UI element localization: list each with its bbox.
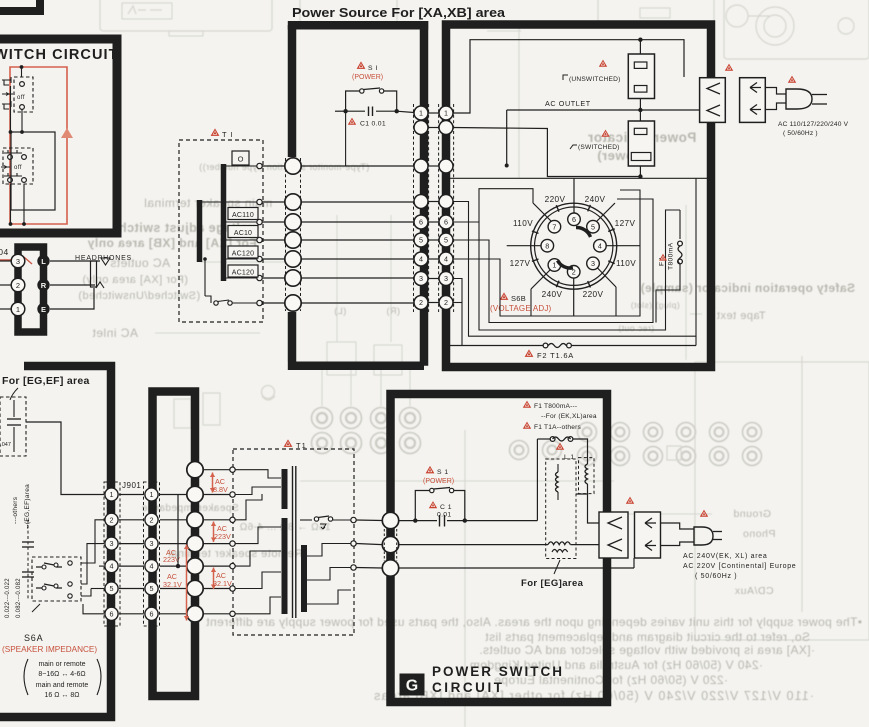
svg-text:240V: 240V bbox=[585, 195, 606, 204]
svg-text:S6B: S6B bbox=[511, 294, 526, 303]
svg-text:(VOLTAGE ADJ): (VOLTAGE ADJ) bbox=[490, 304, 552, 313]
svg-text:(POWER): (POWER) bbox=[352, 74, 383, 81]
svg-text:For [EG,EF] area: For [EG,EF] area bbox=[2, 375, 90, 387]
svg-text:6: 6 bbox=[110, 609, 114, 618]
svg-text:4: 4 bbox=[598, 241, 602, 250]
svg-text:(R): (R) bbox=[386, 306, 400, 316]
svg-text:8.8V: 8.8V bbox=[213, 485, 228, 494]
svg-text:WITCH CIRCUIT: WITCH CIRCUIT bbox=[0, 47, 119, 63]
svg-text:Ground: Ground bbox=[733, 508, 771, 520]
svg-text:2: 2 bbox=[444, 298, 448, 307]
svg-text:F1 T800mA---: F1 T800mA--- bbox=[534, 403, 577, 410]
svg-text:•The power supply for this uni: •The power supply for this unit varies d… bbox=[206, 615, 862, 629]
svg-text:220V: 220V bbox=[583, 290, 604, 299]
svg-text:S6A: S6A bbox=[24, 633, 43, 643]
svg-text:223V: 223V bbox=[214, 532, 231, 541]
svg-text:0.022---0.022: 0.022---0.022 bbox=[5, 578, 11, 618]
svg-text:1: 1 bbox=[16, 305, 20, 314]
svg-text:F2 T1.6A: F2 T1.6A bbox=[537, 351, 574, 360]
svg-text:(rec out): (rec out) bbox=[618, 323, 654, 333]
svg-text:T800mA: T800mA bbox=[668, 242, 675, 270]
svg-text:3: 3 bbox=[444, 274, 448, 283]
svg-text:AC110: AC110 bbox=[232, 212, 254, 219]
svg-text:·[XA] area is provided with vo: ·[XA] area is provided with voltage sele… bbox=[479, 643, 815, 657]
svg-text:L: L bbox=[41, 257, 46, 266]
svg-text:O: O bbox=[238, 155, 244, 164]
svg-text:S I: S I bbox=[368, 65, 378, 72]
svg-text:(plug) (slot): (plug) (slot) bbox=[630, 300, 679, 310]
svg-text:Phono: Phono bbox=[743, 528, 776, 540]
svg-text:8~16Ω ↔ 4-6Ω: 8~16Ω ↔ 4-6Ω bbox=[38, 671, 85, 678]
svg-text:3: 3 bbox=[591, 259, 595, 268]
svg-text:(UNSWITCHED): (UNSWITCHED) bbox=[569, 76, 620, 83]
svg-text:3: 3 bbox=[16, 257, 20, 266]
svg-text:8: 8 bbox=[545, 241, 549, 250]
svg-text:(POWER): (POWER) bbox=[423, 478, 454, 485]
svg-text:main and remote: main and remote bbox=[36, 682, 89, 689]
svg-text:( 50/60Hz ): ( 50/60Hz ) bbox=[695, 573, 737, 580]
svg-text:J901: J901 bbox=[122, 481, 141, 490]
svg-text:T I: T I bbox=[222, 130, 234, 139]
svg-text:4: 4 bbox=[110, 562, 114, 571]
svg-text:127V: 127V bbox=[615, 219, 636, 228]
svg-text:4: 4 bbox=[419, 255, 423, 264]
svg-text:E: E bbox=[41, 305, 46, 314]
svg-text:AC OUTLET: AC OUTLET bbox=[545, 99, 591, 108]
svg-text:5: 5 bbox=[444, 236, 448, 245]
svg-text:5: 5 bbox=[419, 236, 423, 245]
svg-text:4: 4 bbox=[444, 255, 448, 264]
svg-text:C 1: C 1 bbox=[440, 504, 452, 511]
svg-text:L 1: L 1 bbox=[564, 454, 575, 461]
svg-text:6: 6 bbox=[150, 609, 154, 618]
svg-text:For [EG]area: For [EG]area bbox=[521, 578, 584, 589]
svg-text:3: 3 bbox=[110, 539, 114, 548]
svg-text:C1 0.01: C1 0.01 bbox=[360, 121, 386, 128]
svg-text:0.082---0.082: 0.082---0.082 bbox=[16, 578, 22, 618]
svg-text:6: 6 bbox=[444, 218, 448, 227]
svg-text:(Switched/Unswitched): (Switched/Unswitched) bbox=[78, 290, 200, 302]
svg-text:3: 3 bbox=[150, 539, 154, 548]
svg-text:2: 2 bbox=[419, 298, 423, 307]
svg-text:4: 4 bbox=[150, 562, 154, 571]
svg-text:( 50/60Hz ): ( 50/60Hz ) bbox=[783, 130, 818, 137]
svg-text:110V: 110V bbox=[616, 259, 636, 268]
svg-text:off: off bbox=[17, 95, 25, 101]
svg-text:S 1: S 1 bbox=[437, 469, 449, 476]
svg-text:6: 6 bbox=[419, 218, 423, 227]
svg-text:1: 1 bbox=[444, 109, 448, 118]
svg-text:1: 1 bbox=[150, 490, 154, 499]
svg-text:1: 1 bbox=[110, 490, 114, 499]
svg-text:127V: 127V bbox=[510, 259, 531, 268]
svg-text:AC 220V [Continental] Europe: AC 220V [Continental] Europe bbox=[683, 563, 796, 570]
svg-text:3: 3 bbox=[419, 274, 423, 283]
svg-text:CD/Aux: CD/Aux bbox=[734, 585, 773, 597]
svg-text:1: 1 bbox=[552, 261, 556, 270]
svg-text:5: 5 bbox=[591, 222, 595, 231]
svg-text:(SPEAKER IMPEDANCE): (SPEAKER IMPEDANCE) bbox=[2, 645, 97, 654]
svg-text:110V: 110V bbox=[513, 219, 533, 228]
svg-text:0.047: 0.047 bbox=[0, 442, 11, 448]
svg-text:2: 2 bbox=[16, 281, 20, 290]
svg-text:AC inlet: AC inlet bbox=[92, 326, 138, 340]
svg-text:G: G bbox=[406, 678, 418, 695]
svg-text:16 Ω ↔ 8Ω: 16 Ω ↔ 8Ω bbox=[45, 692, 80, 699]
svg-text:F1 T1A--others: F1 T1A--others bbox=[534, 424, 582, 431]
svg-text:(L): (L) bbox=[334, 306, 347, 316]
svg-text:main or remote: main or remote bbox=[38, 661, 85, 668]
svg-text:32.1V: 32.1V bbox=[163, 580, 182, 589]
svg-text:5: 5 bbox=[150, 584, 154, 593]
svg-text:--(EG,EF)area: --(EG,EF)area bbox=[24, 484, 31, 529]
svg-text:--For (EK,XL)area: --For (EK,XL)area bbox=[541, 413, 597, 420]
svg-text:(SWITCHED): (SWITCHED) bbox=[578, 144, 620, 151]
svg-text:5: 5 bbox=[110, 584, 114, 593]
svg-text:AC 240V(EK, XL) area: AC 240V(EK, XL) area bbox=[683, 553, 767, 560]
svg-text:7: 7 bbox=[552, 222, 556, 231]
svg-text:AC120: AC120 bbox=[232, 251, 254, 258]
svg-text:off: off bbox=[14, 165, 22, 171]
svg-text:AC10: AC10 bbox=[234, 230, 252, 237]
svg-text:Tape text: Tape text bbox=[716, 310, 765, 322]
svg-text:404: 404 bbox=[0, 247, 9, 257]
svg-text:2: 2 bbox=[110, 515, 114, 524]
svg-text:Power Source For [XA,XB] area: Power Source For [XA,XB] area bbox=[292, 6, 506, 20]
svg-text:32.1V: 32.1V bbox=[213, 579, 232, 588]
svg-text:240V: 240V bbox=[542, 290, 563, 299]
svg-text:AC120: AC120 bbox=[232, 270, 254, 277]
svg-text:Safety operation indicator (sa: Safety operation indicator (sample) bbox=[640, 281, 855, 295]
svg-text:R: R bbox=[41, 281, 47, 290]
svg-text:1: 1 bbox=[419, 109, 423, 118]
svg-text:T1: T1 bbox=[296, 441, 307, 450]
svg-text:6: 6 bbox=[572, 215, 576, 224]
svg-text:AC 110/127/220/240 V: AC 110/127/220/240 V bbox=[778, 121, 849, 128]
svg-text:2: 2 bbox=[150, 515, 154, 524]
svg-text:So, refer to the circuit diagr: So, refer to the circuit diagram and rep… bbox=[485, 630, 810, 644]
svg-text:---others: ---others bbox=[12, 496, 19, 524]
svg-text:220V: 220V bbox=[545, 195, 566, 204]
